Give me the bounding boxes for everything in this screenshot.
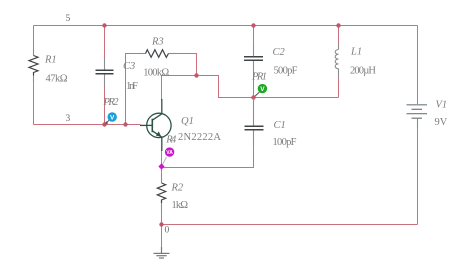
transistor Q1 2N2222A: [140, 99, 171, 151]
resistor R1: [33, 49, 35, 82]
svg-text:PR1: PR1: [251, 72, 267, 83]
wire: emitter vertical to net junction: [161, 150, 163, 167]
wire: collector net from Q1 to C2/C1 junction and L1: [162, 76, 339, 98]
wire: net 3 horizontal to Q1 base: [34, 124, 141, 126]
wire: R3 right lead + drop to collector net: [176, 54, 197, 76]
svg-text:2N2222A: 2N2222A: [178, 132, 221, 143]
svg-text:500pF: 500pF: [274, 66, 298, 77]
probe PR4 (magenta VA) on emitter: [158, 147, 174, 169]
wire: R2 bottom to net 0: [161, 204, 163, 225]
wire: L1 bottom vertical: [338, 76, 340, 98]
svg-text:0: 0: [165, 226, 170, 236]
svg-text:R3: R3: [151, 36, 164, 47]
svg-text:VA: VA: [166, 150, 173, 156]
svg-text:V: V: [260, 86, 265, 93]
junction dot net3/C3: [102, 122, 106, 126]
wire: C2 bottom vertical: [253, 72, 255, 98]
wire: collector vertical above Q1: [161, 76, 163, 101]
resistor R3: [138, 53, 177, 55]
svg-text:100kΩ: 100kΩ: [143, 67, 169, 78]
wire: V1 bottom vertical to net 0: [417, 128, 419, 225]
capacitor C1: [253, 98, 255, 146]
svg-text:47kΩ: 47kΩ: [46, 74, 68, 85]
svg-text:1kΩ: 1kΩ: [172, 200, 189, 211]
svg-text:PR2: PR2: [103, 97, 120, 108]
svg-text:C1: C1: [274, 120, 286, 131]
junction dot collector/R3: [194, 73, 198, 77]
svg-text:R2: R2: [171, 183, 184, 194]
resistor R2: [161, 174, 163, 212]
wire: C3 top vertical: [104, 26, 106, 59]
wire: emitter net horizontal to C1 bottom: [162, 145, 254, 168]
svg-text:R4: R4: [165, 134, 177, 145]
wire: R2 top lead: [161, 168, 163, 184]
junction dot C2/C1/PR1: [251, 95, 255, 99]
svg-text:V1: V1: [436, 100, 448, 111]
svg-text:100pF: 100pF: [273, 137, 297, 148]
capacitor C3: [104, 57, 106, 87]
probe PR2 (blue V): [105, 112, 117, 124]
junction dot net5/C3: [102, 23, 106, 27]
svg-text:R1: R1: [44, 55, 57, 66]
wire: C2 top vertical: [253, 26, 255, 47]
svg-text:9V: 9V: [435, 117, 448, 128]
wire: top net 5 horizontal: [34, 25, 418, 27]
junction dot net0/R2: [159, 222, 163, 226]
wire: left vertical above R1: [33, 26, 35, 51]
svg-text:1nF: 1nF: [126, 81, 138, 92]
ground: [154, 247, 170, 258]
wire: C3 bottom vertical: [104, 86, 106, 125]
svg-text:C3: C3: [123, 61, 135, 72]
probe PR1 (green V): [255, 84, 267, 96]
Q1 emitter arrow: [156, 131, 162, 137]
wire: net 0 horizontal: [162, 224, 418, 226]
battery V1: [407, 105, 428, 129]
junction dot net5/C2: [251, 23, 255, 27]
wire: ground drop: [161, 225, 163, 249]
svg-text:Q1: Q1: [181, 116, 194, 127]
inductor L1: [335, 43, 338, 77]
svg-text:3: 3: [66, 114, 71, 124]
wire: L1 top vertical: [338, 26, 340, 45]
svg-text:C2: C2: [273, 47, 286, 58]
junction dot net3/R3: [123, 122, 127, 126]
svg-text:5: 5: [66, 14, 71, 24]
wire: left vertical below R1: [33, 81, 35, 125]
svg-text:V: V: [110, 114, 115, 121]
capacitor C2: [253, 44, 255, 73]
svg-text:200µH: 200µH: [350, 65, 376, 76]
wire: V1 top vertical: [417, 26, 419, 105]
wire: R3 left lead + drop to net 3: [126, 54, 140, 125]
svg-text:L1: L1: [350, 47, 362, 58]
junction dot net5/L1: [336, 23, 340, 27]
